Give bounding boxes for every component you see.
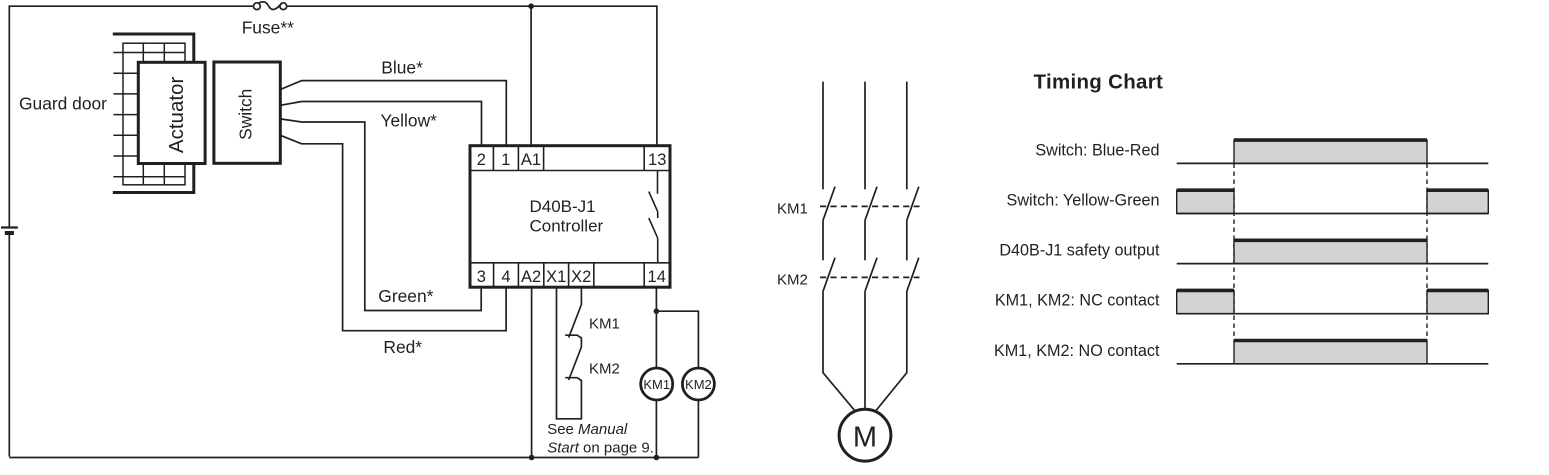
svg-text:KM1, KM2: NO contact: KM1, KM2: NO contact bbox=[994, 342, 1160, 360]
svg-text:Switch: Switch bbox=[236, 89, 256, 140]
svg-text:2: 2 bbox=[477, 151, 486, 169]
svg-text:13: 13 bbox=[648, 151, 666, 169]
svg-text:D40B-J1 safety output: D40B-J1 safety output bbox=[999, 242, 1160, 260]
svg-text:Switch: Blue-Red: Switch: Blue-Red bbox=[1035, 141, 1159, 159]
svg-text:M: M bbox=[853, 422, 877, 454]
svg-text:KM2: KM2 bbox=[589, 360, 620, 377]
svg-text:Actuator: Actuator bbox=[165, 77, 188, 154]
svg-text:KM2: KM2 bbox=[685, 377, 712, 392]
svg-text:X2: X2 bbox=[571, 268, 591, 286]
svg-text:Fuse**: Fuse** bbox=[242, 18, 294, 38]
svg-text:KM1: KM1 bbox=[643, 377, 670, 392]
svg-text:Red*: Red* bbox=[383, 337, 422, 357]
svg-text:KM1: KM1 bbox=[589, 316, 620, 333]
svg-text:3: 3 bbox=[477, 268, 486, 286]
svg-text:Timing Chart: Timing Chart bbox=[1034, 71, 1164, 94]
svg-text:Guard door: Guard door bbox=[19, 94, 107, 114]
svg-text:X1: X1 bbox=[546, 268, 566, 286]
svg-text:Blue*: Blue* bbox=[381, 58, 423, 78]
svg-text:Yellow*: Yellow* bbox=[381, 111, 438, 131]
svg-text:A2: A2 bbox=[521, 268, 541, 286]
svg-text:KM1: KM1 bbox=[777, 200, 808, 217]
svg-text:Start on page 9.: Start on page 9. bbox=[547, 440, 654, 457]
svg-text:D40B-J1: D40B-J1 bbox=[530, 197, 596, 216]
svg-text:See Manual: See Manual bbox=[547, 421, 628, 438]
svg-text:KM1, KM2: NC contact: KM1, KM2: NC contact bbox=[995, 292, 1160, 310]
svg-text:KM2: KM2 bbox=[777, 271, 808, 288]
svg-text:1: 1 bbox=[501, 151, 510, 169]
svg-text:Controller: Controller bbox=[530, 217, 604, 236]
svg-text:Switch: Yellow-Green: Switch: Yellow-Green bbox=[1007, 192, 1160, 210]
svg-text:14: 14 bbox=[648, 268, 666, 286]
svg-text:A1: A1 bbox=[521, 151, 541, 169]
svg-text:Green*: Green* bbox=[378, 286, 433, 306]
svg-text:4: 4 bbox=[501, 268, 510, 286]
